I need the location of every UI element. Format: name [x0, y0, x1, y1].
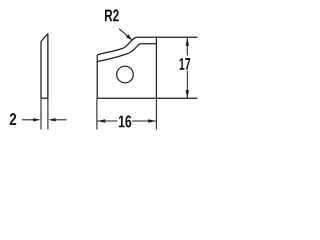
- label R2: [105, 9, 119, 21]
- 2-dim arrow pointing right: [33, 118, 41, 121]
- 2-dim arrow pointing left: [48, 118, 56, 121]
- front view top edge with 17-dim extension: [137, 36, 198, 38]
- R2 leader arrowhead: [126, 34, 132, 40]
- front view left edge: [96, 55, 98, 99]
- 16-dim extension line right: [155, 98, 157, 129]
- side view top bevel edge: [41, 34, 48, 42]
- label 16: [119, 115, 131, 127]
- hole: [117, 66, 134, 83]
- 2-dim extension line left: [40, 98, 42, 129]
- 16-dim arrow pointing left: [97, 119, 105, 122]
- front view outer cutting profile: [97, 37, 137, 55]
- 17-dim line lower segment: [186, 71, 188, 98]
- 16-dim extension line left: [96, 98, 98, 129]
- 2-dim line right segment: [54, 119, 67, 121]
- 2-dim line left segment: [22, 119, 35, 121]
- front view inner bevel line: [97, 44, 156, 62]
- R2 leader line: [119, 29, 127, 36]
- 17-dim line upper segment: [186, 38, 188, 56]
- 16-dim line right segment: [132, 120, 156, 122]
- label 2: [10, 113, 16, 125]
- 16-dim line left segment: [97, 120, 117, 122]
- side view left edge: [40, 42, 42, 99]
- front view right edge: [155, 37, 157, 98]
- side view right edge: [47, 34, 49, 99]
- label 17: [180, 58, 191, 70]
- 17-dim arrow pointing up: [186, 38, 189, 46]
- 17-dim arrow pointing down: [186, 90, 189, 98]
- front view bottom edge with 17-dim extension: [97, 97, 197, 99]
- 2-dim extension line right: [47, 34, 49, 130]
- 16-dim arrow pointing right: [148, 119, 156, 122]
- side view bottom edge: [41, 97, 48, 99]
